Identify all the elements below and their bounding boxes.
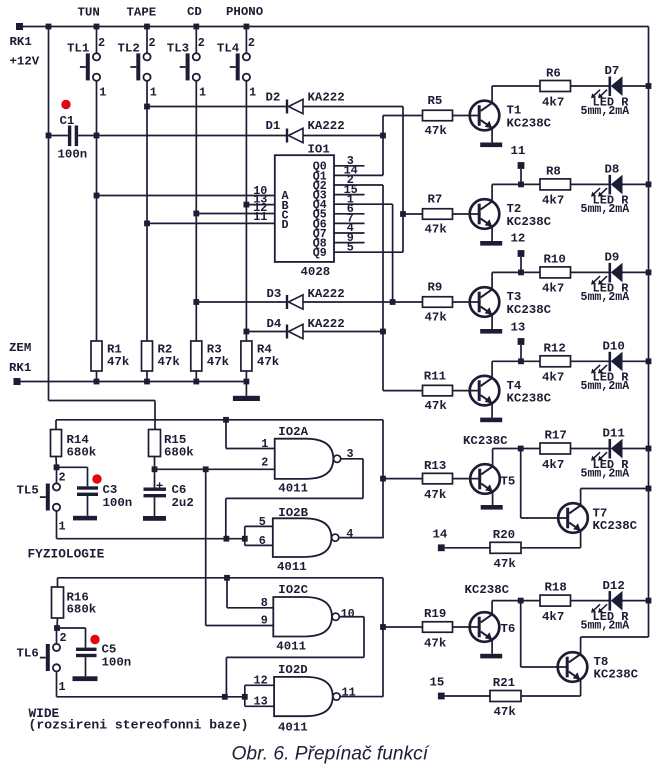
wire Q5 stub	[334, 213, 365, 215]
junction	[244, 379, 250, 385]
svg-text:+12V: +12V	[10, 55, 40, 69]
svg-text:2: 2	[59, 471, 66, 485]
svg-text:1: 1	[261, 437, 268, 451]
svg-text:D2: D2	[266, 91, 281, 105]
svg-text:R5: R5	[428, 94, 443, 108]
junction	[54, 464, 60, 470]
wire R5 to base	[453, 115, 481, 117]
svg-text:TL3: TL3	[167, 42, 189, 56]
svg-text:ZEM: ZEM	[9, 341, 31, 355]
svg-text:C1: C1	[60, 114, 75, 128]
resistor R20	[490, 542, 521, 553]
resistor R5	[423, 110, 453, 121]
svg-text:4011: 4011	[278, 482, 308, 496]
wire Q2 line	[334, 184, 383, 186]
wire T6 emitter	[491, 640, 493, 654]
svg-text:IO2C: IO2C	[278, 583, 308, 597]
resistor R4	[241, 341, 252, 371]
svg-text:KA222: KA222	[308, 91, 345, 105]
svg-text:4k7: 4k7	[542, 194, 564, 208]
svg-text:4k7: 4k7	[542, 371, 564, 385]
svg-text:TUN: TUN	[78, 6, 100, 20]
wire T3 emitter	[491, 315, 493, 329]
wire collector row T4	[492, 360, 610, 362]
junction	[646, 598, 652, 604]
wire D2 to corner	[303, 106, 403, 108]
wire T2 collector	[491, 184, 493, 201]
ground of T1	[480, 143, 502, 148]
wire D3 cathode line	[196, 301, 287, 303]
svg-text:1: 1	[59, 680, 66, 694]
transistor T1	[470, 101, 500, 131]
wire pin9 horizontal	[206, 625, 274, 627]
wire feedback vertical lower	[382, 578, 384, 697]
diode D4	[287, 324, 303, 338]
svg-text:2: 2	[60, 631, 67, 645]
svg-text:47k: 47k	[424, 488, 447, 502]
wire R1 bottom lead	[96, 371, 98, 382]
svg-text:47k: 47k	[424, 637, 447, 651]
svg-text:4k7: 4k7	[542, 458, 564, 472]
junction	[380, 133, 386, 139]
ground main	[233, 396, 260, 401]
junction	[94, 193, 100, 199]
wire node15 to R21	[445, 695, 490, 697]
svg-text:Obr. 6. Přepínač funkcí: Obr. 6. Přepínač funkcí	[232, 744, 430, 765]
marker red dot C1	[61, 100, 70, 109]
wire T6 collector row	[492, 600, 610, 602]
svg-text:47k: 47k	[425, 124, 448, 138]
svg-text:11: 11	[511, 144, 526, 158]
svg-text:5mm,2mA: 5mm,2mA	[581, 105, 630, 118]
wire +12V top rail	[20, 26, 649, 28]
svg-text:4k7: 4k7	[542, 95, 564, 109]
resistor R7	[423, 209, 453, 220]
svg-text:KC238C: KC238C	[593, 519, 638, 533]
node 14 terminal	[438, 544, 445, 551]
svg-text:4011: 4011	[276, 640, 306, 654]
svg-text:47k: 47k	[425, 399, 448, 413]
junction	[242, 536, 248, 542]
junction	[244, 24, 250, 30]
wire IO2C feedback left	[226, 656, 364, 658]
svg-text:KC238C: KC238C	[594, 668, 639, 682]
junction	[203, 466, 209, 472]
wire D2 cathode line	[147, 106, 287, 108]
junction	[223, 417, 229, 423]
wire IO2D pin13	[245, 705, 274, 707]
wire R11 to base	[453, 390, 481, 392]
wire to C3	[57, 466, 88, 468]
svg-text:D1: D1	[266, 119, 281, 133]
junction	[518, 446, 524, 452]
wire T4 emitter	[491, 403, 493, 417]
wire R20 to T7 emitter	[521, 547, 581, 549]
junction	[646, 486, 652, 492]
wire T7 collector	[580, 489, 582, 506]
wire IO2B input bracket	[244, 526, 246, 545]
wire T5 collector row	[493, 448, 610, 450]
transistor T5	[470, 464, 500, 494]
LED D11	[591, 439, 623, 461]
wire Q7 stub	[334, 232, 365, 234]
wire T7 base vertical	[520, 449, 522, 519]
wire R9 to base	[453, 301, 481, 303]
wire D10 to rail	[623, 360, 649, 362]
wire TL1 pin1 down	[96, 81, 98, 342]
wire T4 collector	[491, 361, 493, 378]
svg-text:KC238C: KC238C	[507, 117, 552, 131]
switch TL6	[40, 644, 60, 672]
wire Q0 stub	[334, 165, 365, 167]
svg-text:R7: R7	[428, 193, 443, 207]
resistor R11	[423, 385, 453, 396]
svg-text:47k: 47k	[425, 223, 448, 237]
wire C5 top lead	[85, 628, 87, 648]
diode D1	[287, 128, 303, 142]
junction	[646, 446, 652, 452]
resistor R8	[540, 179, 571, 190]
wire IO2A pin1 branch vertical	[225, 420, 227, 449]
wire pin8 branch horizontal	[227, 607, 273, 609]
diode D2	[287, 99, 303, 113]
svg-text:1: 1	[249, 85, 256, 99]
svg-text:4: 4	[346, 527, 353, 541]
capacitor C3	[77, 486, 98, 496]
wire TL1 pin2 stub	[96, 27, 98, 54]
node 15 terminal	[438, 693, 445, 700]
op-amp IO2B NAND gate	[273, 518, 339, 557]
junction	[242, 694, 248, 700]
svg-text:4028: 4028	[301, 265, 331, 279]
wire TL5 pin1 down	[56, 511, 58, 539]
resistor R3	[191, 341, 202, 371]
wire IO2C feedback down	[363, 617, 365, 658]
svg-text:47k: 47k	[107, 355, 130, 369]
svg-text:1: 1	[99, 85, 106, 99]
junction	[518, 598, 524, 604]
wire R15 net to IO2A pin2	[155, 468, 275, 470]
svg-text:KC238C: KC238C	[507, 303, 552, 317]
junction	[144, 24, 150, 30]
junction	[46, 24, 52, 30]
resistor R13	[423, 473, 453, 484]
wire T1 emitter	[491, 128, 493, 142]
wire R16 bottom lead	[56, 618, 59, 628]
wire IO2B output	[339, 537, 383, 539]
svg-text:100n: 100n	[58, 148, 88, 162]
svg-text:R17: R17	[545, 428, 567, 442]
svg-text:2u2: 2u2	[172, 496, 194, 510]
ground of T2	[480, 241, 502, 246]
wire IO2D pin12	[245, 684, 274, 686]
wire pin8 branch vertical	[226, 578, 228, 608]
resistor R10	[540, 267, 571, 278]
svg-text:14: 14	[433, 528, 448, 542]
wire input A from TL1	[97, 195, 275, 197]
wire R14 bottom lead	[55, 457, 58, 468]
junction	[193, 379, 199, 385]
resistor R12	[540, 356, 571, 367]
svg-text:D9: D9	[605, 251, 620, 265]
junction	[244, 202, 250, 208]
wire T8 base	[521, 666, 568, 668]
wire ZEM rail	[17, 381, 246, 383]
junction	[244, 329, 250, 335]
wire T3 collector	[491, 272, 493, 289]
wire T6 collector	[491, 601, 493, 615]
node RK1 +12V terminal	[16, 23, 23, 30]
LED D10	[591, 352, 623, 374]
wire R7 to base	[453, 213, 481, 215]
svg-text:R20: R20	[493, 528, 515, 542]
wire node 13 stub	[520, 345, 522, 362]
junction	[54, 625, 60, 631]
wire Q9 line	[334, 251, 403, 253]
ground of T3	[480, 329, 502, 334]
svg-text:47k: 47k	[494, 557, 517, 571]
svg-text:IO2B: IO2B	[278, 506, 308, 520]
wire IO2A feedback to IO2B	[225, 498, 227, 538]
node ZEM terminal	[14, 378, 21, 385]
wire collector row T1	[492, 85, 610, 87]
wire R13 left	[383, 478, 423, 480]
junction	[193, 299, 199, 305]
svg-text:D: D	[282, 218, 289, 232]
svg-text:RK1: RK1	[9, 361, 31, 375]
wire C6 bottom lead	[154, 497, 156, 516]
node 13 terminal	[518, 338, 525, 345]
svg-text:2: 2	[149, 36, 156, 50]
svg-text:R10: R10	[544, 253, 566, 267]
svg-text:FYZIOLOGIE: FYZIOLOGIE	[28, 547, 105, 562]
wire T8 emitter	[580, 680, 582, 696]
junction	[518, 270, 524, 276]
junction	[144, 221, 150, 227]
junction	[646, 182, 652, 188]
wire C1 left	[49, 135, 68, 137]
transistor T8	[558, 652, 588, 682]
resistor R19	[423, 622, 453, 633]
svg-text:47k: 47k	[425, 311, 448, 325]
wire Q1 to D1/R5 node	[334, 174, 383, 176]
wire +12V to R15 vertical	[154, 401, 156, 431]
wire R3 bottom lead	[195, 371, 197, 382]
wire net to IO2C pin9 vertical	[205, 469, 207, 625]
wire T8 collector	[580, 637, 582, 654]
junction	[94, 24, 100, 30]
wire feedback B vertical	[382, 420, 384, 539]
wire Q8 stub	[334, 242, 365, 244]
wire C6 top lead	[154, 469, 156, 487]
svg-text:(rozsireni stereofonni baze): (rozsireni stereofonni baze)	[29, 718, 249, 733]
op-amp IO1 4028 BCD decoder box	[275, 155, 334, 262]
svg-text:KC238C: KC238C	[465, 583, 510, 597]
wire C1 right / D1 anode line	[78, 135, 287, 137]
wire IO2B pin5	[245, 525, 273, 527]
wire TL6 pin1 down	[56, 671, 58, 696]
svg-text:47k: 47k	[257, 355, 280, 369]
LED D8	[591, 175, 623, 197]
junction	[380, 476, 386, 482]
junction	[94, 379, 100, 385]
wire TL6 to gates	[57, 696, 245, 698]
wire input B from TL4	[246, 204, 274, 206]
svg-text:R12: R12	[544, 342, 566, 356]
junction	[94, 133, 100, 139]
svg-text:9: 9	[261, 614, 268, 628]
switch TL1	[80, 53, 100, 81]
capacitor C6	[144, 488, 167, 498]
wire feedback line B	[56, 419, 383, 421]
junction	[193, 24, 199, 30]
junction	[518, 182, 524, 188]
resistor R15	[149, 430, 161, 457]
resistor R17	[540, 443, 571, 454]
wire IO2C feedback to IO2D	[225, 657, 227, 696]
wire T8 base vertical	[520, 601, 522, 667]
junction	[46, 133, 52, 139]
wire Q4 line	[334, 203, 393, 205]
wire node 11 stub	[520, 169, 522, 185]
svg-text:D4: D4	[267, 317, 282, 331]
svg-text:100n: 100n	[102, 655, 132, 669]
wire Q3 stub	[334, 194, 365, 196]
junction	[646, 270, 652, 276]
wire C5 bottom lead	[85, 657, 87, 676]
wire +12V to R15 horizontal	[49, 400, 156, 402]
op-amp IO2C NAND gate	[273, 597, 339, 637]
wire T7 base	[521, 517, 568, 519]
ground of T6	[480, 654, 502, 659]
svg-text:680k: 680k	[67, 603, 97, 617]
svg-text:11: 11	[253, 210, 267, 224]
svg-text:1: 1	[199, 85, 206, 99]
svg-text:+: +	[156, 480, 163, 494]
wire T1 collector	[491, 86, 493, 103]
wire R19 left	[383, 626, 423, 628]
resistor R6	[540, 81, 571, 92]
wire D4 cathode line	[246, 331, 287, 333]
wire node14 to R20	[445, 547, 490, 549]
junction	[390, 299, 396, 305]
svg-text:R18: R18	[545, 580, 567, 594]
svg-text:12: 12	[511, 232, 526, 246]
wire TL4 pin2 stub	[245, 27, 247, 54]
wire node 12 stub	[520, 257, 522, 273]
wire R7 left	[403, 213, 423, 215]
svg-text:D8: D8	[605, 163, 620, 177]
svg-text:8: 8	[261, 596, 268, 610]
ground of C5	[73, 676, 98, 681]
svg-text:RK1: RK1	[10, 35, 32, 49]
wire R4 bottom lead	[245, 371, 247, 382]
wire R16 feedback line	[58, 577, 384, 579]
svg-text:TL1: TL1	[67, 42, 89, 56]
wire T7 collector to rail	[581, 488, 649, 490]
svg-text:680k: 680k	[164, 446, 194, 460]
wire TL5 to gates	[57, 538, 245, 540]
svg-text:1: 1	[150, 85, 157, 99]
junction	[222, 694, 228, 700]
svg-text:2: 2	[261, 456, 268, 470]
wire T7 emitter	[580, 531, 582, 548]
svg-text:15: 15	[430, 676, 445, 690]
junction	[224, 536, 230, 542]
svg-text:KA222: KA222	[308, 119, 345, 133]
svg-text:2: 2	[98, 36, 105, 50]
junction	[518, 358, 524, 364]
wire Q6 stub	[334, 222, 365, 224]
svg-text:KA222: KA222	[308, 317, 345, 331]
svg-text:4k7: 4k7	[542, 610, 564, 624]
svg-text:KA222: KA222	[308, 287, 345, 301]
capacitor C1	[68, 126, 78, 147]
wire IO2A feedback left	[226, 497, 363, 499]
node 12 terminal	[518, 250, 525, 257]
resistor R21	[490, 691, 521, 702]
resistor R16	[52, 587, 64, 618]
wire R21 to T8 emitter	[521, 695, 581, 697]
resistor R2	[142, 341, 153, 371]
wire collector row T3	[492, 271, 610, 273]
resistor R1	[91, 341, 102, 371]
svg-text:KC238C: KC238C	[507, 215, 552, 229]
wire D1 to node	[303, 135, 383, 137]
wire to C5	[57, 627, 86, 629]
svg-text:D10: D10	[603, 340, 625, 354]
ground of T4	[480, 418, 502, 423]
wire D9 to rail	[623, 271, 649, 273]
wire R13 to T5 base	[453, 478, 481, 480]
svg-text:47k: 47k	[158, 355, 181, 369]
wire C3 bottom lead	[87, 496, 89, 516]
switch TL2	[130, 53, 150, 81]
svg-text:TL4: TL4	[217, 42, 240, 56]
svg-text:5mm,2mA: 5mm,2mA	[581, 291, 630, 304]
diode D3	[287, 295, 303, 309]
svg-text:5mm,2mA: 5mm,2mA	[581, 380, 630, 393]
svg-text:D3: D3	[267, 287, 282, 301]
svg-text:680k: 680k	[67, 446, 97, 460]
svg-text:R9: R9	[428, 281, 443, 295]
wire T8 collector to rail	[581, 636, 649, 638]
svg-text:TAPE: TAPE	[127, 6, 157, 20]
junction	[144, 379, 150, 385]
junction	[646, 358, 652, 364]
junction	[152, 466, 158, 472]
svg-text:5mm,2mA: 5mm,2mA	[581, 619, 630, 632]
wire TL2 pin2 stub	[146, 27, 148, 54]
wire IO2A output	[341, 458, 363, 460]
svg-text:4011: 4011	[277, 560, 307, 574]
wire C3 top lead	[87, 467, 89, 486]
ground of T5	[481, 505, 503, 510]
svg-text:5mm,2mA: 5mm,2mA	[581, 203, 630, 216]
svg-text:1: 1	[59, 520, 66, 534]
wire T5 emitter	[492, 492, 494, 505]
wire Q9/D2 vertical	[402, 107, 404, 253]
wire D3 anode to R9 node	[303, 301, 393, 303]
svg-text:KC238C: KC238C	[463, 434, 508, 448]
junction	[193, 211, 199, 217]
svg-text:CD: CD	[187, 5, 202, 19]
svg-text:R6: R6	[546, 66, 561, 80]
wire IO2C output	[340, 616, 365, 618]
svg-text:T5: T5	[501, 475, 516, 489]
svg-text:R8: R8	[546, 165, 561, 179]
svg-text:IO1: IO1	[308, 143, 330, 157]
